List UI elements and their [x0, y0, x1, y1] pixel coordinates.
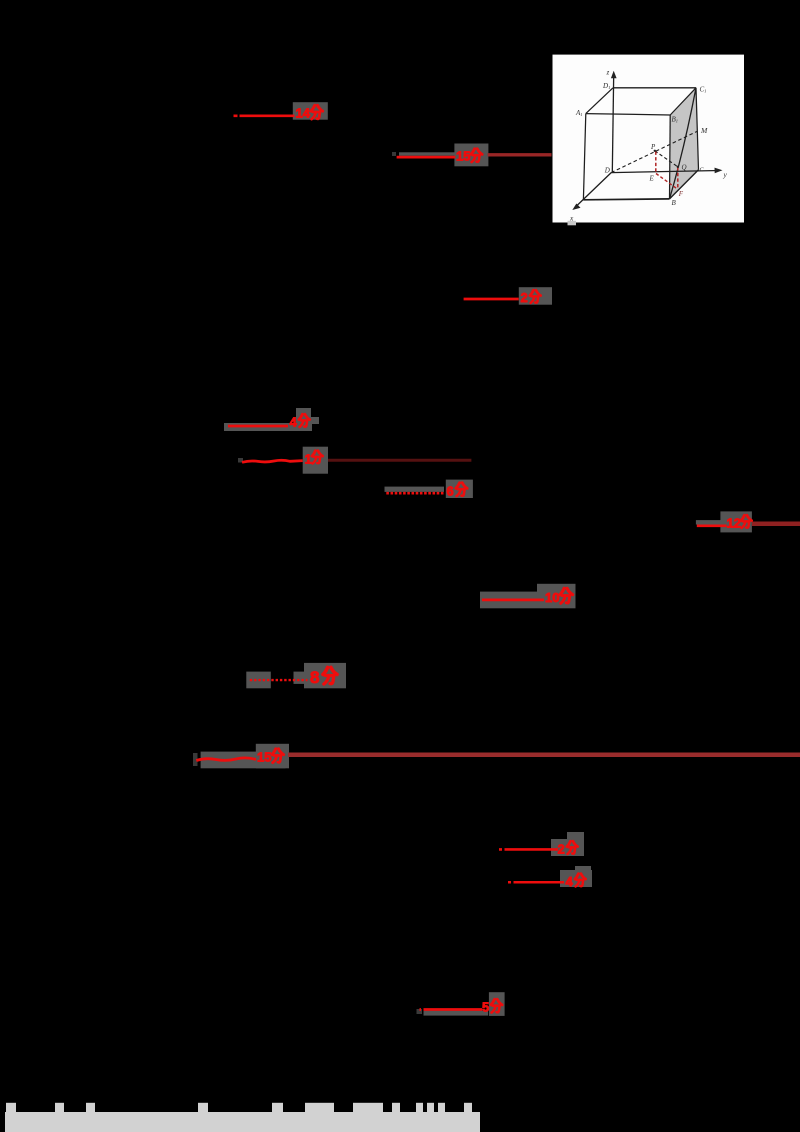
mark E highlight box: [303, 447, 328, 474]
svg-text:M: M: [700, 126, 708, 135]
diagram white panel: [553, 55, 745, 223]
svg-text:8: 8: [310, 668, 319, 687]
dashed D-M: [611, 131, 697, 172]
svg-text:10: 10: [545, 590, 559, 605]
z axis arrowhead: [611, 71, 617, 78]
mark B highlight box: [454, 144, 488, 167]
mark I highlight box right: [304, 663, 346, 688]
mark G score text 12分: [727, 515, 752, 530]
mark M highlight box: [489, 992, 505, 1016]
svg-text:2: 2: [521, 290, 528, 305]
edge B1-B: [669, 115, 672, 199]
mark L highlight bump: [575, 866, 591, 872]
mark F gray strip: [385, 487, 445, 492]
svg-text:2: 2: [558, 842, 565, 857]
mark J dark lead mark: [193, 753, 198, 766]
y axis: [611, 171, 719, 173]
edge A-B: [583, 198, 669, 201]
mark D red line: [228, 425, 288, 428]
mark H score text 10分: [545, 588, 573, 605]
edge A1-A: [583, 114, 585, 200]
mark E dark lead mark: [238, 458, 243, 463]
mark J highlight band: [201, 752, 286, 769]
mark H highlight box right: [537, 584, 576, 609]
svg-text:4: 4: [566, 874, 574, 889]
mark B red line: [397, 156, 456, 159]
mark A score text 14分: [296, 105, 323, 120]
svg-text:15: 15: [456, 149, 470, 164]
mark E red wavy line: [242, 460, 303, 462]
svg-text:F: F: [678, 190, 684, 198]
svg-text:12: 12: [727, 516, 741, 531]
mark A red line: [234, 114, 295, 117]
mark I highlight box left: [246, 672, 270, 689]
mark M gray strip under line: [424, 1011, 489, 1016]
mark C score text 2分: [521, 290, 541, 305]
svg-text:14: 14: [296, 106, 311, 121]
svg-text:Q: Q: [682, 164, 687, 172]
mark J red wavy line: [196, 758, 256, 761]
svg-text:4: 4: [290, 415, 298, 430]
point P: [654, 150, 656, 152]
mark F highlight box: [446, 480, 473, 498]
svg-text:1: 1: [305, 452, 312, 467]
segment C1-B: [670, 88, 697, 199]
mark G trail line: [752, 521, 800, 526]
mark E trail line: [328, 459, 471, 462]
mark M dark lead mark: [417, 1009, 423, 1014]
shaded right face B1-C1-C-B: [670, 88, 699, 199]
mark L highlight box: [560, 870, 592, 887]
mark H red line: [482, 599, 544, 602]
edge D1-C1: [613, 87, 696, 89]
edge C1-C: [696, 88, 699, 170]
svg-text:z: z: [606, 69, 610, 77]
mark A highlight box: [293, 102, 328, 120]
edge B1-C1: [670, 88, 696, 115]
svg-text:15: 15: [257, 750, 271, 765]
mark D highlight box right: [311, 417, 319, 424]
y axis arrowhead: [715, 168, 723, 174]
mark B gray strip: [399, 152, 455, 156]
bottom band: [5, 1112, 480, 1132]
point Q: [677, 166, 679, 168]
edge D1-A1: [586, 88, 613, 114]
mark J highlight box glyphs: [256, 744, 289, 769]
mark D score text 4分: [290, 414, 310, 429]
gray patch behind x label: [568, 221, 577, 226]
svg-text:y: y: [723, 170, 728, 179]
x axis: [575, 173, 611, 208]
mark C red line: [464, 298, 519, 301]
mark J trail line: [288, 753, 800, 758]
mark I red dotted line: [250, 679, 308, 681]
mark I score text 8分: [310, 667, 337, 687]
diagram labels: [568, 69, 728, 226]
mark G highlight box: [720, 511, 752, 532]
mark B trail line: [488, 153, 552, 156]
mark K highlight box: [551, 839, 584, 856]
dashed P-Q: [655, 151, 678, 167]
z axis: [612, 75, 613, 173]
mark M red line: [420, 1008, 483, 1011]
mark K highlight bump: [567, 832, 584, 839]
edge A1-B1: [586, 114, 670, 115]
svg-text:x: x: [569, 214, 574, 223]
svg-text:P: P: [650, 143, 656, 151]
mark G gray strip: [696, 520, 727, 524]
mark J score text 15分: [257, 749, 284, 765]
svg-text:D: D: [604, 167, 610, 175]
mark B dark lead mark: [392, 152, 396, 156]
mark G red line: [697, 524, 727, 527]
red dashed Q-F: [677, 167, 679, 189]
mark L red line: [508, 881, 564, 884]
red dashed P-E: [655, 152, 657, 174]
mark B score text 15分: [456, 149, 482, 164]
mark K score text 2分: [558, 841, 578, 856]
mark L score text 4分: [566, 874, 586, 889]
mark F red dotted line: [386, 492, 444, 495]
mark I highlight box mid: [294, 672, 305, 684]
mark C highlight box: [519, 287, 552, 305]
mark F score text 6分: [447, 483, 468, 499]
svg-text:B: B: [672, 199, 677, 207]
mark K red line: [499, 848, 558, 851]
mark H highlight box left: [480, 592, 537, 609]
edge B-C: [670, 170, 699, 199]
x axis arrowhead: [572, 204, 580, 211]
svg-text:E: E: [649, 175, 655, 183]
mark D highlight box upper: [296, 408, 311, 423]
svg-text:6: 6: [447, 484, 454, 499]
mark M score text 5分: [482, 999, 502, 1014]
svg-text:5: 5: [482, 1000, 489, 1015]
red dashed E-F: [656, 174, 678, 190]
mark D highlight strip: [224, 423, 312, 431]
mark E score text 1分: [305, 451, 323, 467]
band ascender bumps: [6, 1103, 472, 1113]
